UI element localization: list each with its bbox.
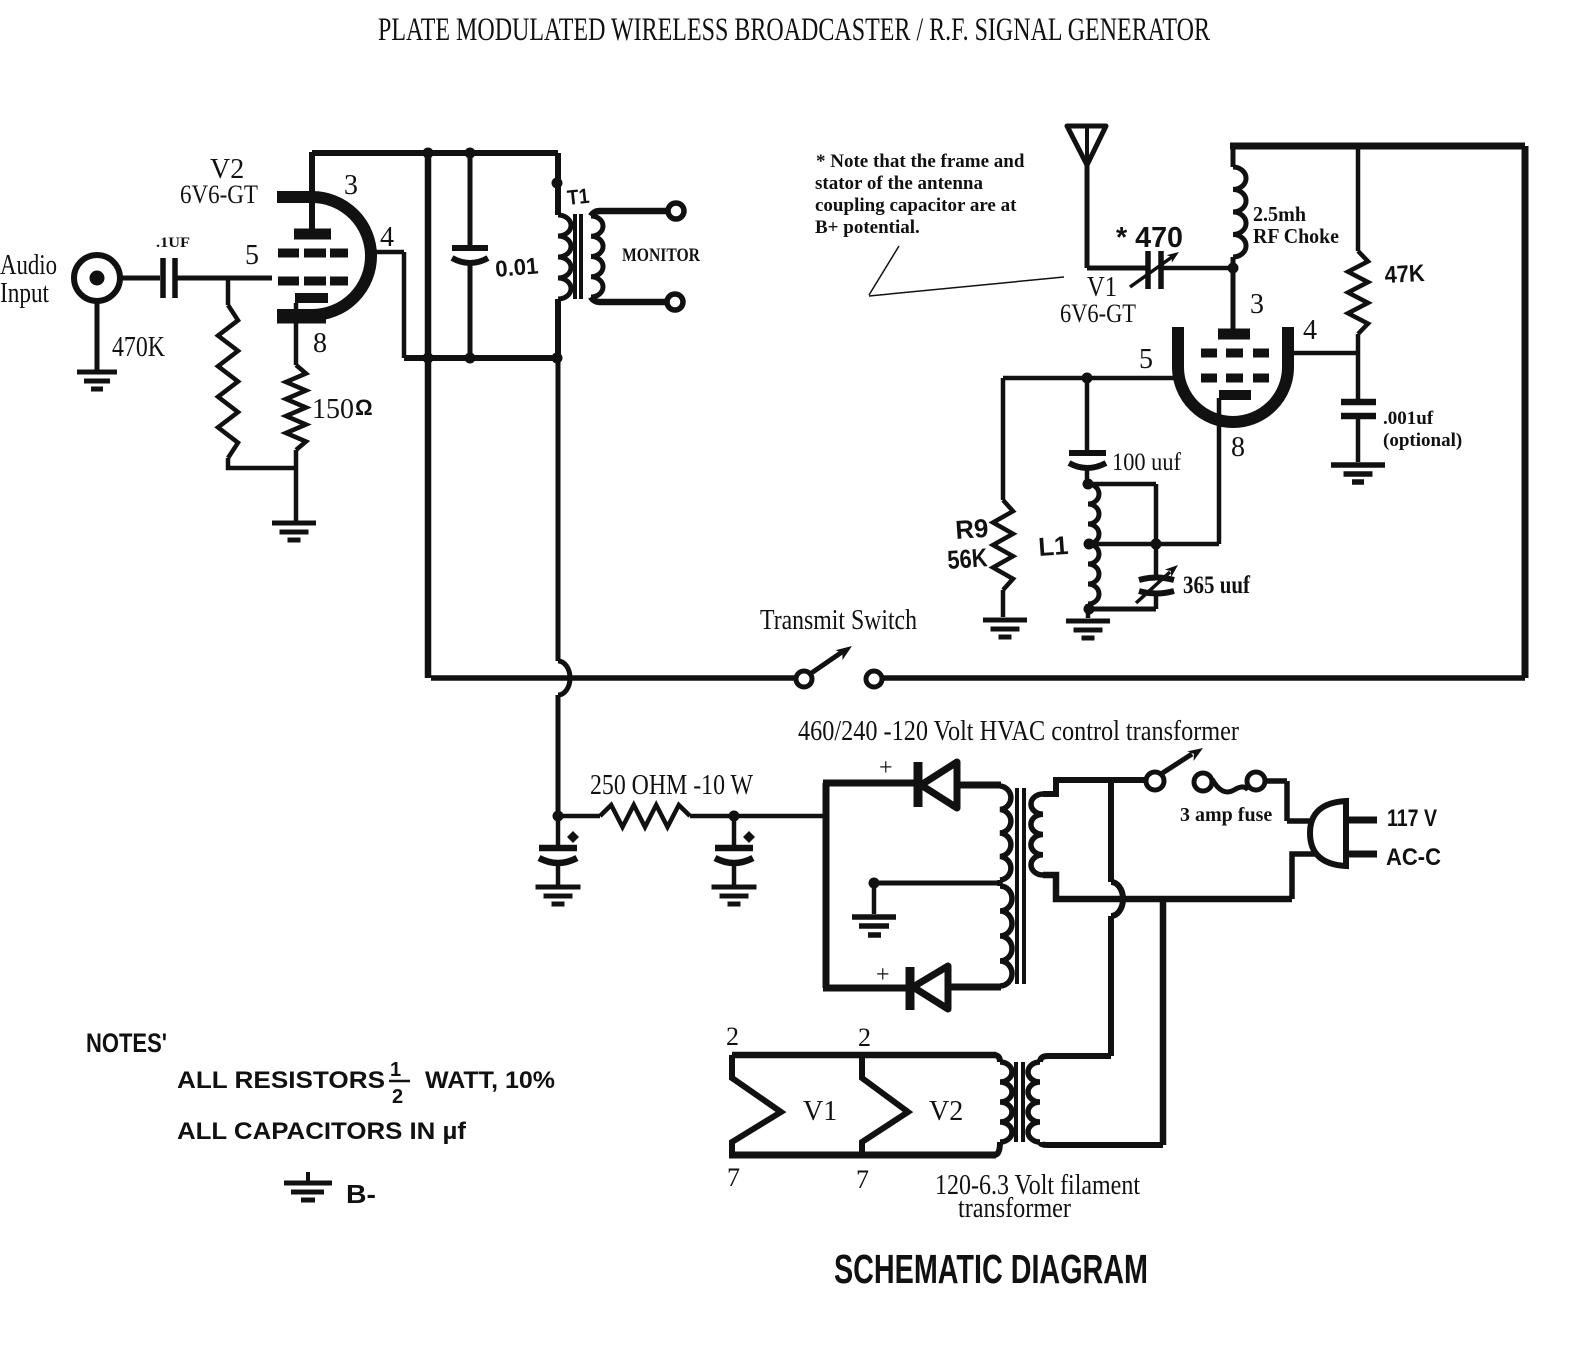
svg-text:6V6-GT: 6V6-GT [180,180,258,209]
svg-text:coupling capacitor are at: coupling capacitor are at [815,195,1017,216]
svg-text:5: 5 [1139,344,1153,375]
svg-text:T1: T1 [566,185,591,210]
svg-text:2: 2 [726,1022,739,1051]
svg-text:SCHEMATIC DIAGRAM: SCHEMATIC DIAGRAM [834,1246,1148,1292]
svg-text:2: 2 [858,1023,871,1052]
svg-text:transformer: transformer [958,1193,1072,1224]
svg-text:.001uf: .001uf [1383,408,1434,429]
svg-text:8: 8 [1231,432,1245,463]
svg-text:WATT, 10%: WATT, 10% [425,1067,555,1094]
svg-text:V1: V1 [803,1096,837,1127]
svg-text:3: 3 [1250,289,1264,320]
svg-text:470K: 470K [112,332,165,363]
svg-text:.1UF: .1UF [156,235,190,251]
svg-text:PLATE MODULATED WIRELESS BROAD: PLATE MODULATED WIRELESS BROADCASTER / R… [378,12,1210,48]
svg-text:RF Choke: RF Choke [1253,224,1339,248]
svg-text:V2: V2 [929,1096,963,1127]
svg-text:MONITOR: MONITOR [622,245,700,266]
svg-text:NOTES': NOTES' [86,1028,167,1058]
svg-text:150: 150 [312,394,354,425]
svg-text:AC-C: AC-C [1386,844,1441,871]
svg-text:(optional): (optional) [1383,430,1462,451]
svg-text:Input: Input [0,278,49,309]
svg-text:7: 7 [727,1163,740,1192]
svg-text:0.01: 0.01 [494,252,539,282]
svg-text:365 uuf: 365 uuf [1183,572,1251,599]
svg-text:7: 7 [856,1165,869,1194]
svg-text:8: 8 [313,328,327,359]
svg-text:* 470: * 470 [1116,222,1183,254]
svg-text:Transmit Switch: Transmit Switch [760,605,917,636]
svg-text:3: 3 [344,170,358,201]
svg-text:3 amp fuse: 3 amp fuse [1180,804,1272,826]
svg-text:2.5mh: 2.5mh [1253,202,1306,226]
svg-text:56K: 56K [946,542,988,575]
svg-text:B+ potential.: B+ potential. [815,217,920,238]
svg-text:4: 4 [1303,315,1317,346]
svg-text:5: 5 [245,240,259,271]
svg-text:Ω: Ω [355,395,373,420]
svg-text:+: + [879,755,893,781]
svg-text:2: 2 [392,1086,403,1108]
svg-text:ALL RESISTORS: ALL RESISTORS [177,1067,385,1094]
svg-text:Audio: Audio [0,250,57,281]
svg-text:stator of the antenna: stator of the antenna [815,173,984,194]
svg-text:117 V: 117 V [1387,805,1437,832]
svg-text:1: 1 [390,1059,401,1081]
svg-text:ALL CAPACITORS IN µf: ALL CAPACITORS IN µf [177,1118,467,1145]
svg-text:6V6-GT: 6V6-GT [1060,299,1136,328]
svg-text:R9: R9 [954,513,989,545]
svg-text:+: + [876,962,890,988]
svg-text:250 OHM -10 W: 250 OHM -10 W [590,770,753,801]
svg-text:L1: L1 [1037,530,1069,562]
svg-text:B-: B- [346,1179,376,1209]
svg-text:460/240 -120 Volt HVAC control: 460/240 -120 Volt HVAC control transform… [798,716,1240,747]
svg-text:4: 4 [380,222,394,253]
svg-text:47K: 47K [1384,260,1426,289]
svg-text:100 uuf: 100 uuf [1112,449,1182,476]
svg-text:* Note that the frame and: * Note that the frame and [816,151,1025,172]
